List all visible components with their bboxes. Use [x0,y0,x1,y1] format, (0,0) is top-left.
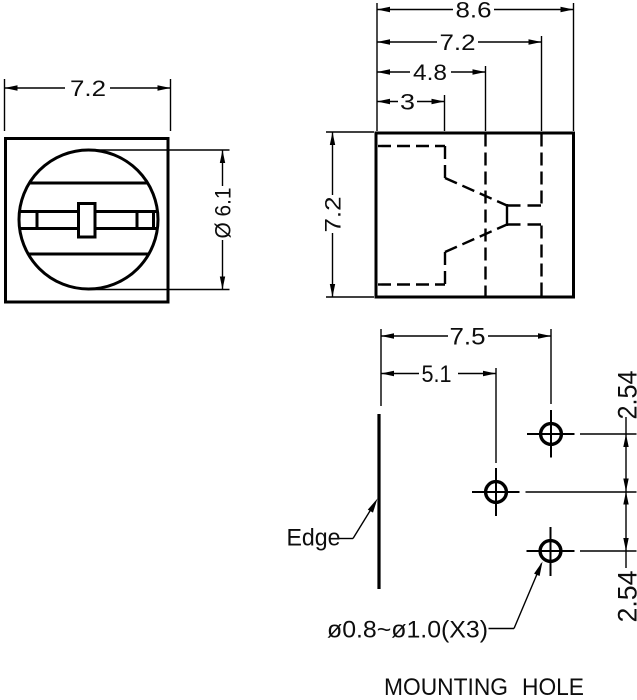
dimension 8.6 extension line right [573,3,575,131]
svg-text:7.2: 7.2 [440,30,476,55]
dimension Ø6.1 up arrow [220,150,225,163]
dimension 7.2 (back view) value label [437,34,478,51]
dimension 7.5 dimension line [381,335,551,337]
dimension 7.2 (top view width) value label [65,79,110,97]
dimension 7.5 right arrow [538,333,551,338]
dimension 2.54 (upper) up arrow [623,434,628,447]
leader Edge arrowhead [368,497,380,513]
svg-text:2.54: 2.54 [613,571,637,623]
PCB edge line [377,414,380,589]
leader hole size arrowhead [534,560,545,576]
package top-view outline 7.2x7.2 square [6,139,169,303]
mounting hole H3 crosshair horizontal [527,550,575,552]
svg-text:8.6: 8.6 [456,0,492,23]
dimension 8.6 extension line left [376,3,378,131]
dimension 4.8 extension line right [485,66,487,131]
leader Edge diagonal segment [353,502,376,539]
dimension 7.2 vertical (back view) value label (rotated) [323,195,342,233]
lens upper chord line [30,182,148,185]
lens lower chord line [28,253,149,256]
dimension Ø6.1 down arrow [220,277,225,290]
lead frame gap top edge (hidden) [507,204,542,206]
mounting hole H2 crosshair vertical [495,468,497,516]
dimension 5.1 extension line right (to middle hole) [495,368,497,463]
mounting hole H2 circle [486,482,507,503]
dimension 5.1 left arrow [381,371,394,376]
dimension 8.6 right arrow [561,7,574,12]
dimension 7.2 vertical (back view) down arrow [330,284,335,297]
dimension 3 left arrow [377,99,390,104]
mounting hole H2 extension to 2.54 dimension [526,491,637,493]
lead frame left pad right edge upper (hidden) [444,146,446,178]
dimension Ø6.1 extension line bottom [89,289,230,291]
electrode band left divider [36,210,39,230]
package back-view outline 8.6x7.2 [376,133,574,297]
dimension 2.54 (upper) down arrow [623,479,628,492]
lead frame left pad top edge (hidden) [378,145,445,147]
leader hole size diagonal segment [514,564,542,629]
dimension 2.54 (lower) down arrow [623,538,628,551]
leader Edge horizontal segment [339,538,353,540]
dimension 3 right arrow [432,99,445,104]
dimension 4.8 dimension line [377,71,486,73]
dimension 7.2 vertical (back view) extension line bottom [326,296,374,298]
dimension 7.2 (top view width) extension line right [170,79,172,131]
mounting hole H2 crosshair horizontal [472,491,520,493]
dimension 8.6 left arrow [377,7,390,12]
dimension 2.54 (upper) value label (rotated) [613,371,637,420]
dimension 5.1 right arrow [483,371,496,376]
dimension 3 dimension line [377,101,445,103]
lead bend line (hidden) [484,134,486,297]
svg-text:ø0.8~ø1.0(X3): ø0.8~ø1.0(X3) [327,617,488,644]
dimension 7.2 (top view width) left arrow [5,85,18,90]
lead frame right pad left edge upper (hidden) [540,134,542,205]
svg-text:MOUNTING: MOUNTING [384,674,508,700]
dimension 7.5 extension line left [380,329,382,406]
mounting hole H1 circle [541,424,562,445]
dimension 7.5 value label [448,327,488,346]
svg-text:7.2: 7.2 [70,76,106,101]
svg-text:Edge: Edge [287,525,341,552]
mounting hole H3 circle [540,541,561,562]
lead frame right pad left edge lower (hidden) [540,226,542,297]
dimension Ø6.1 extension line top [89,149,230,151]
electrode band top edge [20,210,158,213]
leader hole size horizontal segment [489,628,515,630]
dimension Ø6.1 dimension line [222,150,224,290]
lead frame left pad bottom edge (hidden) [378,283,445,285]
svg-text:Ø 6.1: Ø 6.1 [211,188,236,239]
dimension 7.2 (back view) right arrow [529,39,542,44]
dimension 7.2 (top view width) right arrow [158,85,171,90]
svg-text:5.1: 5.1 [422,361,452,388]
dimension 5.1 dimension line [381,373,496,375]
lead frame gap bottom edge (hidden) [507,223,542,225]
dimension 7.2 (top view width) dimension line [5,87,171,89]
dimension 2.54 (lower) up arrow [623,492,628,505]
LED die rectangle [79,204,96,238]
mounting hole H1 crosshair vertical [550,410,552,458]
dimension 4.8 right arrow [473,69,486,74]
electrode band right end cap [152,210,155,230]
dimension 7.2 vertical (back view) extension line top [326,131,374,133]
mounting hole H1 crosshair horizontal [527,433,575,435]
dimension 7.2 vertical (back view) up arrow [330,132,335,145]
svg-text:4.8: 4.8 [413,60,447,85]
dimension 2.54 (lower) value label (rotated) [613,571,637,623]
dimension 7.2 (back view) dimension line [377,41,542,43]
mounting hole H3 extension to 2.54 dimension [580,550,637,552]
dimension 7.2 (back view) left arrow [377,39,390,44]
dimension 3 value label [398,93,417,110]
dimension Ø6.1 value label (rotated) [213,186,232,240]
dimension 7.2 (top view width) extension line left [4,79,6,131]
dimension 8.6 dimension line [377,9,574,11]
dimension 3 extension line right [444,95,446,131]
dimension 5.1 value label [419,364,458,383]
svg-text:HOLE: HOLE [522,674,584,700]
dimension 4.8 left arrow [377,69,390,74]
dimension 8.6 value label [453,1,494,18]
mounting hole H1 extension to 2.54 dimension [580,433,637,435]
dimension 2.54 (upper) dimension line [625,417,627,568]
dimension 7.5 extension line right [550,329,552,404]
lens circle Ø6.1 [19,150,158,289]
electrode band right divider [136,210,139,230]
lead frame lower notch diagonal (hidden) [445,225,507,253]
lead frame upper notch diagonal (hidden) [445,178,507,206]
electrode band bottom edge [20,227,158,230]
dimension 7.2 vertical (back view) dimension line [332,133,334,298]
lead frame center junction segment [506,204,508,226]
dimension 7.2 (back view) extension line right [541,36,543,131]
dimension 4.8 value label [410,64,451,81]
svg-text:7.2: 7.2 [321,197,346,233]
svg-text:2.54: 2.54 [613,371,637,420]
lead frame left pad right edge lower (hidden) [444,252,446,285]
svg-text:7.5: 7.5 [450,324,486,351]
svg-text:3: 3 [400,90,415,115]
dimension 7.5 left arrow [381,333,394,338]
mounting hole H3 crosshair vertical [550,527,552,576]
